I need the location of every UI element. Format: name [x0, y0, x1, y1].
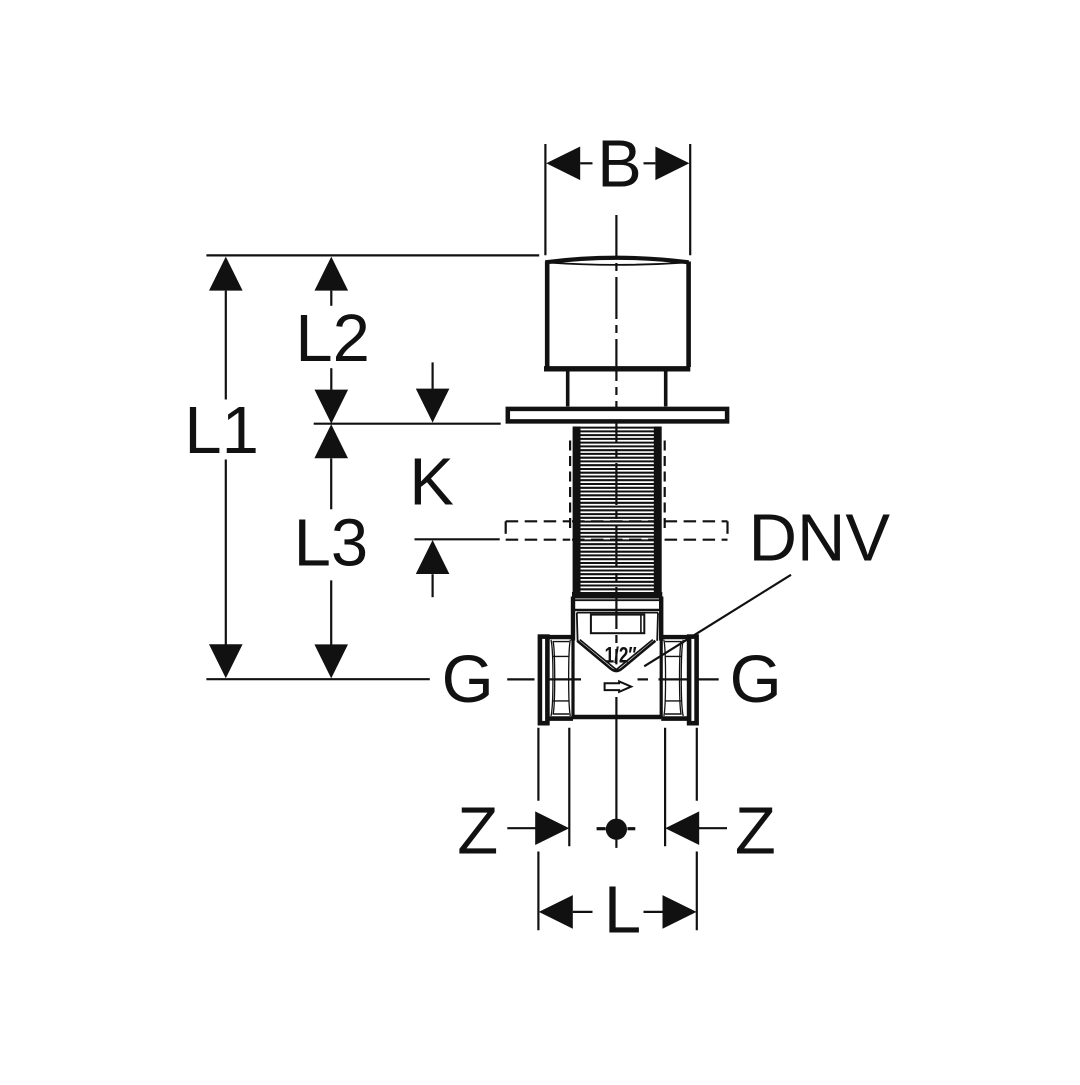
- knob (actuator cap): [545, 258, 688, 263]
- valve body bottom edge: [573, 715, 661, 719]
- left socket end cap: [540, 637, 548, 724]
- right socket internal thread detail: [665, 641, 682, 643]
- V chamfer (double line): [577, 641, 655, 671]
- center point dot: [606, 819, 627, 840]
- thread bottom shoulder: [572, 592, 662, 599]
- center axis (vertical dash-dot): [615, 215, 617, 664]
- dimension L2 line and arrows: [315, 257, 349, 424]
- threaded shaft: flank bands: [573, 427, 662, 593]
- dimension B extension lines: [544, 144, 546, 255]
- value label 1/2 inch: [605, 643, 638, 668]
- bonnet shield outline: [577, 612, 658, 614]
- left socket internal thread detail: [553, 641, 570, 643]
- right socket end cap: [689, 637, 697, 724]
- extension line top (knob top level): [206, 254, 539, 256]
- spindle recess rectangle: [591, 615, 644, 634]
- svg-text:G: G: [442, 642, 494, 717]
- threaded shaft: crest lines: [573, 428, 661, 590]
- flow direction arrow: [605, 681, 632, 692]
- knob neck: [566, 371, 570, 406]
- svg-text:L: L: [604, 872, 641, 947]
- svg-text:L1: L1: [184, 393, 259, 468]
- svg-text:Z: Z: [735, 793, 776, 868]
- extension line at valve axis (L1/L3 bottom): [206, 678, 429, 680]
- dimension Z left: [507, 827, 535, 829]
- dimension L arrows: [539, 895, 697, 929]
- svg-text:Z: Z: [457, 793, 498, 868]
- valve bonnet sides: [571, 597, 574, 719]
- svg-text:K: K: [409, 444, 454, 519]
- threaded shaft: dashed major-diameter lines: [569, 441, 571, 529]
- wall cross-section (dashed box right): [665, 520, 728, 522]
- svg-text:B: B: [597, 127, 642, 202]
- svg-text:L2: L2: [295, 301, 370, 376]
- extension lines below valve: [537, 728, 539, 801]
- dimension L3 line and arrows: [314, 424, 348, 678]
- left socket body: [538, 635, 573, 639]
- right socket body: [661, 635, 696, 639]
- svg-text:DNV: DNV: [749, 500, 891, 575]
- wall flange (cover plate): [508, 409, 727, 422]
- wall cross-section (dashed box left): [506, 520, 571, 522]
- dimension K arrows: [432, 362, 434, 388]
- dimension Z right tail: [699, 827, 727, 829]
- dimension B arrows: [546, 147, 689, 181]
- DNV leader line: [644, 575, 791, 667]
- bonnet horizontal lines: [573, 599, 661, 601]
- svg-text:G: G: [730, 642, 782, 717]
- svg-text:L3: L3: [294, 506, 369, 581]
- extension line at flange bottom: [314, 423, 501, 425]
- svg-text:1/2″: 1/2″: [605, 643, 638, 668]
- dimension L1 line and arrows: [209, 257, 243, 679]
- extension line at wall level (K bottom): [415, 538, 500, 540]
- horizontal center line G-G: [507, 678, 534, 680]
- wall lines crossing the thread (dashed): [572, 520, 663, 522]
